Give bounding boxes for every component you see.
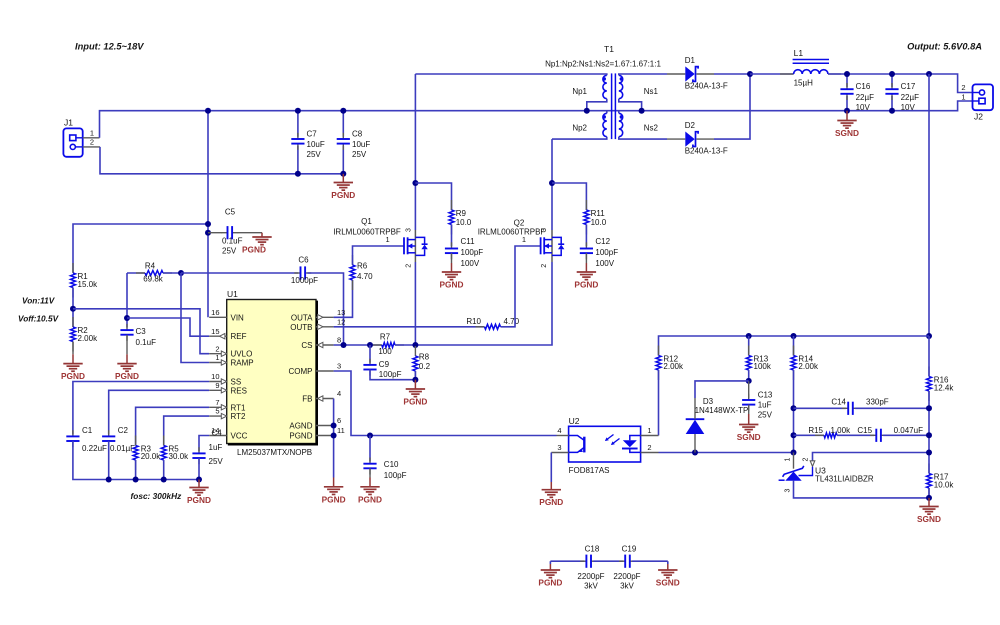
ground SGND under C13	[748, 414, 750, 425]
svg-text:2: 2	[215, 344, 219, 353]
inductor L1	[780, 73, 794, 75]
svg-text:PGND: PGND	[187, 495, 211, 505]
pin 15 REF of U1	[209, 335, 227, 337]
resistor R16	[928, 367, 930, 377]
pin 1 stub of J1	[83, 137, 100, 139]
wire J1 pin2 to bottom input rail	[100, 147, 343, 174]
svg-text:10.0: 10.0	[591, 218, 607, 227]
svg-text:330pF: 330pF	[866, 398, 889, 407]
resistor R12	[658, 346, 660, 356]
node secondary center tap	[639, 108, 645, 114]
polarity dot Ns2	[620, 115, 624, 119]
node C2 rail junction	[106, 477, 112, 483]
svg-text:1uF: 1uF	[209, 443, 223, 452]
wire Np1 bottom to center tap	[587, 99, 607, 111]
wire RT2 to R5	[164, 416, 210, 445]
pin 7 RT1 of U1	[209, 406, 227, 408]
wire C13 to ground	[748, 405, 750, 414]
polarity dot Ns1	[620, 77, 624, 81]
wire Q2 source to CS line	[415, 262, 552, 345]
capacitor C18	[580, 560, 586, 562]
wire R3 to rail	[135, 460, 137, 480]
svg-text:25V: 25V	[209, 457, 224, 466]
svg-text:COMP: COMP	[289, 367, 313, 376]
node bottom rail SGND junction	[926, 495, 932, 501]
ground PGND under C10	[369, 478, 371, 487]
svg-text:PGND: PGND	[539, 497, 563, 507]
resistor R3	[135, 436, 137, 446]
svg-text:C5: C5	[225, 208, 236, 217]
svg-text:10.0: 10.0	[456, 218, 472, 227]
wire R1 to R2	[72, 288, 74, 328]
ground PGND under R2	[72, 354, 74, 363]
node C16 top	[844, 71, 850, 77]
resistor R7	[373, 344, 382, 346]
svg-text:C14: C14	[831, 398, 846, 407]
ground PGND under U2 pin3	[550, 482, 552, 490]
node CS junction C9	[367, 342, 373, 348]
svg-text:16: 16	[211, 308, 219, 317]
svg-text:FOD817AS: FOD817AS	[569, 466, 610, 475]
svg-text:10V: 10V	[901, 103, 916, 112]
resistor R9	[451, 200, 453, 210]
capacitor C7	[297, 111, 299, 137]
svg-text:100pF: 100pF	[595, 248, 618, 257]
resistor R1	[72, 263, 74, 273]
polarity dot Np2	[602, 115, 606, 119]
svg-text:R10: R10	[466, 317, 481, 326]
node C7 top junction	[295, 108, 301, 114]
svg-text:0.22uF: 0.22uF	[82, 444, 107, 453]
wire R4 right to RAMP junction	[163, 272, 181, 274]
node C10 junction	[367, 433, 373, 439]
wire D3 to R13 junction	[695, 381, 749, 398]
svg-text:1000pF: 1000pF	[291, 276, 318, 285]
svg-text:2200pF: 2200pF	[613, 572, 640, 581]
wire output tap down to feedback rail	[928, 74, 930, 336]
svg-text:R15: R15	[808, 426, 823, 435]
svg-text:LM25037MTX/NOPB: LM25037MTX/NOPB	[237, 448, 312, 457]
wire FB to ground drop	[333, 399, 335, 478]
pin 16 VIN of U1	[209, 316, 227, 318]
wire J1 pin1 to top input rail	[100, 111, 587, 138]
svg-text:1N4148WX-TP: 1N4148WX-TP	[695, 406, 749, 415]
pin 12 OUTB of U1	[316, 326, 334, 328]
ground PGND under C8	[342, 174, 344, 183]
capacitor C9	[369, 345, 371, 363]
ground PGND under C12	[585, 263, 587, 272]
svg-text:PGND: PGND	[289, 432, 312, 441]
svg-text:Von:11V: Von:11V	[22, 296, 56, 306]
node C14 left	[791, 405, 797, 411]
svg-text:Np1: Np1	[572, 87, 587, 96]
svg-text:Np2: Np2	[572, 124, 587, 133]
svg-text:4: 4	[557, 426, 561, 435]
svg-text:R6: R6	[357, 262, 368, 271]
wire U3 anode to bottom rail	[794, 481, 930, 498]
capacitor C17	[891, 74, 893, 87]
svg-text:0.047uF: 0.047uF	[894, 426, 923, 435]
pin 4 FB of U1	[316, 398, 334, 400]
polarity dot Np1	[602, 77, 606, 81]
pin 11 PGND of U1	[316, 435, 334, 437]
svg-text:25V: 25V	[758, 411, 773, 420]
svg-text:PGND: PGND	[574, 280, 598, 290]
svg-text:20.0k: 20.0k	[141, 452, 162, 461]
svg-text:100pF: 100pF	[461, 248, 484, 257]
svg-text:IRLML0060TRPBF: IRLML0060TRPBF	[478, 228, 546, 237]
svg-text:SGND: SGND	[737, 432, 761, 442]
wire R17 leads	[928, 453, 930, 474]
capacitor C19	[619, 560, 625, 562]
svg-text:PGND: PGND	[331, 190, 355, 200]
svg-text:PGND: PGND	[538, 578, 562, 588]
svg-text:R11: R11	[591, 209, 606, 218]
node AGND junction	[331, 423, 337, 429]
svg-text:C12: C12	[595, 237, 610, 246]
svg-text:OUTB: OUTB	[290, 323, 312, 332]
capacitor C2	[108, 430, 110, 436]
svg-text:SGND: SGND	[835, 128, 859, 138]
svg-text:C16: C16	[856, 82, 871, 91]
wire COMP to opto	[334, 371, 557, 436]
svg-text:1uF: 1uF	[758, 401, 772, 410]
wire R16 spans	[928, 336, 930, 377]
node primary center tap	[584, 108, 590, 114]
svg-text:C1: C1	[82, 426, 93, 435]
capacitor C3	[126, 324, 128, 330]
svg-text:B240A-13-F: B240A-13-F	[685, 147, 728, 156]
svg-text:4.70: 4.70	[357, 272, 373, 281]
wire R11 to C12	[585, 225, 587, 247]
resistor R8	[414, 346, 416, 356]
svg-text:0.1uF: 0.1uF	[136, 338, 157, 347]
svg-text:Q2: Q2	[514, 219, 525, 228]
svg-text:0.2: 0.2	[419, 362, 431, 371]
svg-text:22µF: 22µF	[856, 93, 875, 102]
svg-text:1: 1	[522, 235, 526, 244]
wire C2 to rail	[108, 441, 110, 480]
svg-text:FB: FB	[302, 395, 312, 404]
svg-text:3: 3	[785, 488, 792, 492]
svg-text:1: 1	[215, 353, 219, 362]
node C4 rail PGND junction	[196, 477, 202, 483]
svg-text:25V: 25V	[307, 150, 322, 159]
capacitor C12	[585, 242, 587, 248]
pin 3 COMP of U1	[316, 370, 334, 372]
wire OUTA to R6	[334, 280, 353, 317]
svg-text:CS: CS	[301, 341, 312, 350]
svg-text:2.00k: 2.00k	[78, 334, 99, 343]
pin 14 VCC of U1	[209, 435, 227, 437]
svg-text:10.0k: 10.0k	[934, 480, 955, 489]
wire feedback top rail	[659, 336, 930, 356]
svg-text:Ns1: Ns1	[644, 87, 659, 96]
pin 4 stub of U2	[557, 435, 569, 437]
pin 5 RT2 of U1	[209, 415, 227, 417]
svg-text:VIN: VIN	[231, 313, 245, 322]
wire R5 to rail	[163, 460, 165, 480]
wire Q1 source to CS line	[414, 262, 416, 345]
resistor R4	[136, 272, 145, 274]
wire OUTB to R10	[334, 326, 485, 328]
svg-text:10uF: 10uF	[352, 140, 370, 149]
svg-text:C8: C8	[352, 130, 363, 139]
node CS junction A	[341, 342, 347, 348]
svg-text:3: 3	[541, 228, 548, 232]
svg-text:4: 4	[337, 389, 341, 398]
wire C9 bottom to R8 bottom	[370, 370, 415, 380]
node R1 R2 UVLO junction	[70, 306, 76, 312]
pin 1 RAMP of U1	[209, 362, 227, 364]
wire CS pin to junctions	[334, 344, 382, 346]
pin 1 stub of U2	[641, 435, 659, 437]
svg-text:1: 1	[647, 426, 651, 435]
svg-text:100pF: 100pF	[379, 370, 402, 379]
svg-text:100V: 100V	[595, 259, 614, 268]
wire Ns1 bottom to secondary center tap	[619, 99, 642, 111]
svg-text:R7: R7	[380, 333, 391, 342]
svg-text:100V: 100V	[461, 259, 480, 268]
diode D2	[667, 138, 685, 140]
wire VCC to C4	[199, 436, 209, 452]
node C5 branch lower	[205, 230, 211, 236]
wire D2 up to output junction	[714, 74, 750, 139]
wire UVLO route	[73, 309, 209, 354]
svg-text:C18: C18	[585, 545, 600, 554]
svg-text:1: 1	[90, 128, 94, 137]
svg-text:13: 13	[337, 308, 345, 317]
wire U3 reference from divider line	[813, 453, 930, 462]
node U3 cathode junction	[791, 450, 797, 456]
ground PGND under C11	[451, 263, 453, 272]
svg-text:2: 2	[961, 83, 965, 92]
svg-text:REF: REF	[231, 332, 247, 341]
wire R6 to Q1 gate	[353, 246, 405, 265]
winding Np1	[603, 75, 607, 98]
pin 9 RES of U1	[209, 389, 227, 391]
pin 6 AGND of U1	[316, 425, 334, 427]
wire L1 to output rail	[828, 74, 973, 93]
node D3 anode junction	[692, 450, 698, 456]
node C14 right	[926, 405, 932, 411]
pin 13 OUTA of U1	[316, 316, 334, 318]
svg-text:10uF: 10uF	[307, 140, 325, 149]
svg-text:D3: D3	[703, 397, 714, 406]
wire C12 to ground	[585, 253, 587, 263]
svg-text:5: 5	[215, 407, 219, 416]
wire R1 top branch	[73, 224, 208, 273]
svg-text:C3: C3	[136, 327, 147, 336]
svg-text:Ns2: Ns2	[644, 124, 659, 133]
capacitor C16	[846, 74, 848, 87]
svg-text:12.4k: 12.4k	[934, 383, 955, 392]
wire R4 left branch	[127, 272, 145, 274]
svg-text:100: 100	[378, 347, 392, 356]
wire Q2 drain to Np2 bottom	[551, 139, 553, 230]
svg-text:C7: C7	[307, 130, 318, 139]
wire R15 to C15	[837, 434, 874, 436]
svg-text:AGND: AGND	[289, 422, 312, 431]
capacitor C11	[451, 242, 453, 248]
wire RES to C2	[109, 390, 210, 434]
wire snubber tap to R11	[552, 183, 586, 210]
node VIN branch on top rail	[205, 108, 211, 114]
svg-text:D1: D1	[685, 56, 696, 65]
ground PGND under R8	[414, 380, 416, 389]
opto-isolator U2	[569, 426, 641, 462]
wire R7 to R8 top	[395, 344, 415, 346]
svg-text:C9: C9	[379, 360, 390, 369]
svg-text:RES: RES	[231, 386, 247, 395]
svg-text:9: 9	[215, 381, 219, 390]
pin 3 stub of U2	[551, 452, 568, 454]
svg-text:7: 7	[215, 398, 219, 407]
winding Np2	[603, 113, 607, 136]
wire rectifier junction to L1	[750, 73, 794, 75]
svg-text:100k: 100k	[754, 362, 772, 371]
svg-text:J2: J2	[974, 112, 983, 122]
wire R8 to bottom junction	[414, 371, 416, 380]
svg-text:2: 2	[405, 264, 412, 268]
op-amp U1 LM25037 body	[227, 300, 318, 445]
ground SGND at feedback bottom	[928, 498, 930, 507]
winding Ns2	[619, 113, 623, 136]
wire R15 lead	[794, 434, 825, 436]
pin 10 SS of U1	[209, 381, 227, 383]
svg-text:Np1:Np2:Ns1:Ns2=1.67:1.67:1:1: Np1:Np2:Ns1:Ns2=1.67:1.67:1:1	[545, 60, 661, 69]
wire R9 to C11	[451, 225, 453, 247]
wire C10 to ground	[369, 468, 371, 477]
svg-text:C15: C15	[857, 426, 872, 435]
svg-text:PGND: PGND	[242, 244, 266, 254]
wire C14 right	[855, 407, 929, 409]
capacitor C4	[198, 447, 200, 453]
wire RAMP drop	[181, 273, 209, 363]
capacitor C1	[72, 430, 74, 436]
svg-text:TL431LIAIDBZR: TL431LIAIDBZR	[815, 475, 874, 484]
wire REF route	[127, 318, 209, 336]
winding Ns1	[619, 75, 623, 98]
node C7 bottom junction	[295, 171, 301, 177]
pin 2 stub of J1	[83, 146, 100, 148]
svg-text:L1: L1	[794, 48, 804, 58]
ground PGND at C5	[261, 233, 263, 237]
wire safety cap line	[550, 560, 584, 562]
node Q1 drain snubber junction	[412, 180, 418, 186]
svg-text:100pF: 100pF	[384, 471, 407, 480]
wire C6 to CS node	[307, 273, 343, 345]
svg-text:PGND: PGND	[61, 371, 85, 381]
svg-text:PGND: PGND	[440, 280, 464, 290]
wire R12 to opto pin1	[658, 370, 660, 436]
wire C18 to C19	[593, 560, 623, 562]
node U2 line right junction	[926, 450, 932, 456]
svg-text:1: 1	[961, 92, 965, 101]
node rectifier output junction	[747, 71, 753, 77]
svg-text:11: 11	[337, 426, 345, 435]
svg-text:C6: C6	[298, 255, 309, 264]
svg-text:Output: 5.6V0.8A: Output: 5.6V0.8A	[907, 42, 982, 52]
resistor R15	[815, 434, 824, 436]
svg-text:IRLML0060TRPBF: IRLML0060TRPBF	[333, 228, 401, 237]
node feedback tap on output rail	[926, 71, 932, 77]
svg-text:RAMP: RAMP	[231, 359, 254, 368]
wire U2 pin3 to ground	[550, 453, 552, 483]
svg-text:RT1: RT1	[231, 403, 247, 412]
node C5 branch upper	[205, 221, 211, 227]
svg-text:69.8k: 69.8k	[143, 275, 164, 284]
wire R13 to D3 junction	[748, 370, 750, 381]
node C17 top	[889, 71, 895, 77]
svg-text:U1: U1	[227, 289, 238, 299]
svg-text:C11: C11	[461, 237, 476, 246]
svg-text:RT2: RT2	[231, 412, 247, 421]
svg-text:3kV: 3kV	[584, 582, 598, 591]
ground SGND at C19	[667, 561, 669, 564]
svg-text:J1: J1	[64, 118, 73, 128]
node C3 REF junction	[124, 315, 130, 321]
capacitor C8	[342, 111, 344, 137]
pin 8 CS of U1	[316, 344, 334, 346]
wire C11 to ground	[451, 253, 453, 263]
transformer T1 core	[611, 73, 613, 139]
svg-text:Voff:10.5V: Voff:10.5V	[18, 314, 60, 324]
svg-text:PGND: PGND	[358, 494, 382, 504]
node R15 left	[791, 432, 797, 438]
ground PGND under C3	[126, 354, 128, 363]
wire U2 pin2 line to U3 cathode	[659, 452, 794, 454]
svg-text:30.0k: 30.0k	[169, 452, 190, 461]
node R8 top junction	[412, 342, 418, 348]
svg-text:fosc: 300kHz: fosc: 300kHz	[131, 491, 183, 501]
svg-text:1.00k: 1.00k	[831, 426, 852, 435]
wire C19 to SGND corner	[632, 560, 668, 562]
svg-text:SGND: SGND	[656, 578, 680, 588]
svg-text:12: 12	[337, 317, 345, 326]
node Q2 drain snubber junction	[549, 180, 555, 186]
svg-text:UVLO: UVLO	[231, 350, 253, 359]
wire Np2 bottom to Q2 drain	[552, 137, 607, 139]
svg-text:0.1uF: 0.1uF	[222, 237, 243, 246]
wire top rail to Np1	[415, 74, 606, 75]
node R8 bottom junction	[412, 377, 418, 383]
node R3 rail junction	[133, 477, 139, 483]
resistor R5	[163, 436, 165, 446]
wire D1 to output junction	[714, 73, 750, 75]
resistor R11	[585, 200, 587, 210]
wire Ns2 bottom to D2	[619, 137, 667, 139]
svg-text:22µF: 22µF	[901, 93, 920, 102]
wire C4 to rail	[198, 458, 200, 480]
wire R14 down feedback column	[793, 370, 795, 453]
svg-text:VCC: VCC	[231, 432, 248, 441]
svg-text:D2: D2	[685, 121, 696, 130]
capacitor C6	[294, 272, 300, 274]
node R5 rail junction	[161, 477, 167, 483]
node C16 bottom	[844, 108, 850, 114]
diode D3	[694, 434, 696, 453]
node RAMP junction	[178, 270, 184, 276]
svg-text:2200pF: 2200pF	[577, 572, 604, 581]
capacitor C5	[208, 232, 222, 234]
wire snubber tap to R9	[415, 183, 451, 210]
resistor R6	[352, 255, 354, 265]
node R13 tap	[746, 333, 752, 339]
svg-text:Input: 12.5~18V: Input: 12.5~18V	[75, 42, 144, 52]
node C15 right	[926, 432, 932, 438]
svg-text:C10: C10	[384, 460, 399, 469]
